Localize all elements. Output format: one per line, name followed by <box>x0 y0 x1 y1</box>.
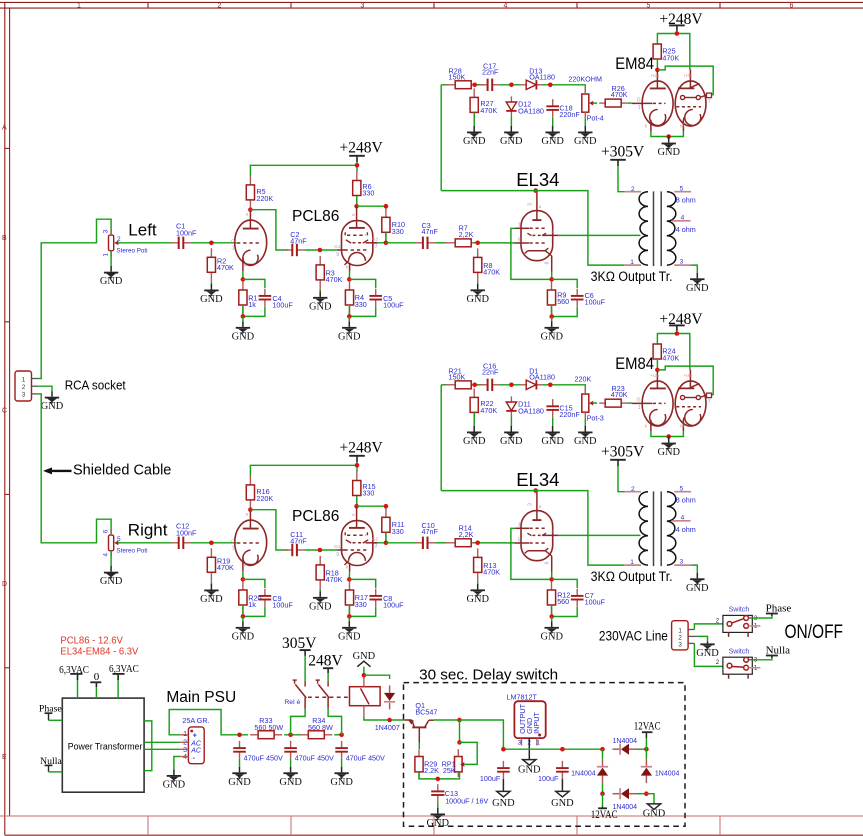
wire Q1 collector to junction <box>434 718 462 723</box>
svg-text:GND: GND <box>200 594 223 605</box>
svg-text:Stereo Poti: Stereo Poti <box>116 547 147 554</box>
svg-text:100uF: 100uF <box>383 301 404 310</box>
wire C12 to triode grid <box>191 542 237 544</box>
svg-text:470K: 470K <box>326 575 343 584</box>
resistor R13 470K (EL34 grid leak) <box>474 548 501 581</box>
svg-text:+248V: +248V <box>340 139 384 156</box>
wire pentode cathode network <box>349 579 375 588</box>
svg-text:470K: 470K <box>662 53 679 62</box>
resistor R2 470K (grid leak) <box>207 248 234 281</box>
ground GND at bridge <box>643 804 666 820</box>
svg-text:4: 4 <box>552 229 555 235</box>
wire anode to coupling cap C11 <box>250 510 288 550</box>
svg-text:1: 1 <box>77 3 81 10</box>
ground GND under R2 <box>200 282 223 306</box>
junction screen node <box>354 196 359 209</box>
diode D2 1N4004 (bridge top) <box>613 738 638 755</box>
wire pot wiper to R23 <box>593 402 598 404</box>
wire mains pin1 to switch S1 <box>694 624 723 630</box>
svg-text:470uF 450V: 470uF 450V <box>346 753 385 762</box>
svg-text:3: 3 <box>361 3 365 10</box>
svg-text:GND: GND <box>200 294 223 305</box>
junction EL34 cathode <box>549 572 554 582</box>
svg-text:6: 6 <box>790 3 794 10</box>
resistor R6 330 (screen) <box>353 172 375 205</box>
junction B+ at C19 <box>237 733 242 738</box>
capacitor C13 1000uF / 16V <box>431 784 488 805</box>
svg-text:7: 7 <box>708 99 711 105</box>
svg-text:GND: GND <box>686 583 709 594</box>
wire C17 to D13 <box>500 84 521 86</box>
junction at R3 <box>318 248 323 253</box>
potentiometer RP1 25K <box>442 749 465 777</box>
wire EM84 cathode rail <box>651 431 684 438</box>
svg-text:4: 4 <box>102 553 109 557</box>
svg-text:470uF 450V: 470uF 450V <box>244 753 283 762</box>
ground GND under C22 <box>551 779 574 809</box>
svg-text:100uF: 100uF <box>383 601 404 610</box>
wire EL34 cathode network <box>552 579 578 588</box>
ground GND under R20 <box>232 616 255 642</box>
supply +248V rail (Left) <box>250 139 383 176</box>
ground GND under R27 <box>463 112 486 147</box>
svg-text:47nF: 47nF <box>290 536 307 545</box>
capacitor C5 100uF <box>369 289 404 310</box>
svg-text:AC: AC <box>190 740 202 747</box>
capacitor C9 100uF (cathode bypass) <box>259 589 294 610</box>
junction at R13 <box>475 541 480 546</box>
wire EL34 anode to output transformer <box>559 534 641 536</box>
supply 0 center tap <box>90 671 101 698</box>
svg-text:470K: 470K <box>662 353 679 362</box>
svg-text:1: 1 <box>22 376 26 383</box>
capacitor C16 22nF <box>480 361 500 391</box>
capacitor C17 22nF <box>480 61 500 91</box>
frame row letters <box>2 125 7 762</box>
capacitor C14 100uF (output) <box>480 761 510 783</box>
svg-text:EM84: EM84 <box>615 355 654 373</box>
capacitor C8 100uF <box>369 589 404 610</box>
triode section of PCL86 (V4a) <box>231 510 267 571</box>
diode D5 1N4004 (bridge bottom) <box>613 788 638 811</box>
ground GND under R9 <box>540 317 563 343</box>
svg-text:2: 2 <box>631 486 635 493</box>
resistor R7 2,2K (grid stopper) <box>445 224 481 247</box>
wire Q1 emitter node to regulator output bus <box>460 720 504 749</box>
svg-text:100uF: 100uF <box>585 598 606 607</box>
svg-text:GND: GND <box>100 276 123 287</box>
wire output node to C3 <box>386 242 417 244</box>
junction EL34 top (screen) node <box>533 188 538 193</box>
label Shielded Cable with arrow <box>43 462 171 478</box>
svg-text:EL34-EM84 - 6.3V: EL34-EM84 - 6.3V <box>60 645 138 657</box>
capacitor C18 220nF <box>546 99 580 119</box>
svg-text:5: 5 <box>647 3 651 10</box>
svg-text:2: 2 <box>678 635 682 642</box>
magic eye tube EM84 V6 <box>632 370 712 432</box>
transformer core <box>654 491 662 566</box>
svg-text:Switch: Switch <box>729 607 750 614</box>
svg-text:+305V: +305V <box>601 444 645 461</box>
wire EL34 g3 to cathode <box>511 228 552 279</box>
svg-text:9: 9 <box>336 552 339 558</box>
svg-text:4: 4 <box>681 515 685 522</box>
svg-text:9: 9 <box>336 252 339 258</box>
svg-text:1000uF / 16V: 1000uF / 16V <box>445 796 488 805</box>
label EL34 <box>516 469 559 490</box>
svg-text:B: B <box>2 235 7 242</box>
ground GND under Pot-3 <box>574 418 597 447</box>
svg-text:GND: GND <box>228 777 251 788</box>
switch S1 (Phase) <box>716 607 761 637</box>
frame column numbers <box>77 3 794 10</box>
supply 12VAC bottom <box>591 794 618 821</box>
wire feedback to EM84 block <box>440 85 442 191</box>
resistor R3 470K <box>316 256 342 289</box>
supply 12VAC top <box>634 721 661 750</box>
label EL34 <box>516 169 559 190</box>
connector 25A GR. bridge rectifier <box>179 716 209 764</box>
svg-text:1: 1 <box>518 523 521 529</box>
wire cathode network bottom <box>241 305 265 319</box>
ground GND at RCA <box>41 392 64 413</box>
svg-text:GND: GND <box>657 147 680 158</box>
wire pot wiper to C1 <box>118 242 172 244</box>
svg-text:3: 3 <box>183 747 187 754</box>
svg-text:+Ise: +Ise <box>684 373 693 378</box>
svg-text:220K: 220K <box>575 374 592 383</box>
svg-text:8 ohm: 8 ohm <box>676 495 696 504</box>
ground GND under R4 <box>338 316 361 342</box>
svg-text:G: G <box>231 538 235 544</box>
supply +248V at EM84 <box>659 311 703 334</box>
wire EL34 screen node to feedback and primary bottom <box>441 491 624 565</box>
resistor R4 330 (pentode cathode) <box>345 281 366 314</box>
power transformer T1 box <box>62 698 144 792</box>
ground GND under R18 <box>309 589 332 612</box>
svg-text:GND: GND <box>466 294 489 305</box>
wire pentode cathode network <box>349 279 375 288</box>
resistor R15 330 (screen) <box>353 472 376 505</box>
supply Phase input terminal <box>39 703 63 720</box>
junction bridge bottom right <box>637 791 649 796</box>
relay contact K1b <box>316 680 330 708</box>
svg-text:GND: GND <box>540 331 563 342</box>
wire D13 to pot Pot-4 <box>543 85 586 94</box>
svg-text:GND: GND <box>574 436 597 447</box>
wire feedback to EM84 block <box>440 385 442 491</box>
wire RCA pin2 to ground <box>38 386 52 391</box>
relay actuation dashed link <box>308 696 350 698</box>
capacitor C2 47nF <box>285 230 308 256</box>
resistor R10 330 <box>382 208 405 241</box>
svg-text:470uF 450V: 470uF 450V <box>295 753 334 762</box>
ground GND under R19 <box>200 582 223 606</box>
svg-text:GND: GND <box>696 648 719 659</box>
svg-text:2.2K: 2.2K <box>424 766 439 775</box>
svg-text:3: 3 <box>528 203 534 206</box>
svg-text:GND: GND <box>466 594 489 605</box>
label Rel 6 <box>284 699 300 706</box>
svg-text:470K: 470K <box>483 268 500 277</box>
svg-text:220K: 220K <box>256 494 273 503</box>
wire cathode node to C4 <box>243 279 265 288</box>
svg-text:GND: GND <box>492 798 515 809</box>
triode section of PCL86 (V1a) <box>231 210 267 271</box>
svg-text:BC547: BC547 <box>415 708 437 717</box>
resistor R24 470K <box>653 344 679 362</box>
label RCA socket <box>65 378 126 392</box>
svg-text:2: 2 <box>117 236 121 243</box>
svg-text:Right: Right <box>128 521 168 540</box>
svg-text:GND: GND <box>574 136 597 147</box>
svg-text:GND: GND <box>540 631 563 642</box>
junction pentode cathode <box>347 571 352 582</box>
svg-text:G1: G1 <box>334 544 341 550</box>
capacitor C20 470uF 450V <box>284 741 334 763</box>
resistor R9 560 (EL34 cathode) <box>547 281 569 314</box>
wire left input bus (RCA pin1 up to Left pot) <box>38 219 111 378</box>
resistor R16 220K (anode load) <box>246 476 273 509</box>
ground GND above relay (flipped) <box>353 651 376 675</box>
svg-text:8: 8 <box>545 562 551 565</box>
svg-text:OA1180: OA1180 <box>518 406 544 415</box>
voltage regulator U1 LM7812T <box>507 692 546 746</box>
potentiometer POT1b (volume) <box>102 529 147 557</box>
wire C3 to R7 <box>435 242 447 244</box>
svg-text:5: 5 <box>518 238 521 244</box>
svg-text:Switch: Switch <box>729 648 750 655</box>
wire screen node to R11 <box>357 504 389 509</box>
svg-text:OA1180: OA1180 <box>529 73 555 82</box>
pentode section of PCL86 (V4b) <box>334 506 379 571</box>
svg-text:M: M <box>680 424 684 429</box>
svg-text:560: 560 <box>557 597 569 606</box>
wire EL34 anode to output transformer <box>559 234 641 236</box>
svg-text:EM84: EM84 <box>615 55 654 73</box>
output transformer TR1 3K primary <box>624 186 648 266</box>
svg-text:Power Transformer: Power Transformer <box>68 742 143 752</box>
svg-text:47nF: 47nF <box>290 236 307 245</box>
output transformer secondary <box>667 185 696 265</box>
svg-text:a: a <box>539 205 542 210</box>
svg-text:GND: GND <box>41 401 64 412</box>
svg-text:GND: GND <box>500 136 523 147</box>
svg-text:G: G <box>637 98 641 104</box>
svg-text:4: 4 <box>183 754 187 761</box>
svg-text:12VAC: 12VAC <box>634 721 661 733</box>
wire 305V to relay contact 1 <box>304 656 306 682</box>
svg-text:GND: GND <box>541 136 564 147</box>
junction pentode g2/output node <box>378 532 389 545</box>
junction triode cathode <box>241 271 246 282</box>
svg-text:E: E <box>2 754 7 761</box>
junction EL34 cathode <box>549 272 554 282</box>
svg-text:GND: GND <box>427 818 450 829</box>
svg-text:220nF: 220nF <box>559 110 580 119</box>
svg-text:220K: 220K <box>256 194 273 203</box>
svg-text:Main PSU: Main PSU <box>166 689 236 706</box>
junction bridge bottom left <box>600 783 605 796</box>
svg-text:330: 330 <box>355 300 367 309</box>
svg-text:5: 5 <box>117 536 121 543</box>
wire pot wiper to R26 <box>593 102 598 104</box>
svg-text:PCL86: PCL86 <box>292 508 339 525</box>
wire relay bottom row <box>364 717 405 723</box>
svg-text:EL34: EL34 <box>516 169 559 190</box>
capacitor C11 47nF <box>285 530 308 556</box>
svg-text:470K: 470K <box>611 90 628 99</box>
diode D12 OA1180 <box>506 96 544 116</box>
wire C11 to pentode grid <box>305 549 338 551</box>
svg-text:470K: 470K <box>480 106 497 115</box>
wire feedback into R21 <box>441 384 447 386</box>
capacitor C19 470uF 450V <box>233 741 283 763</box>
svg-text:3: 3 <box>102 229 109 233</box>
junction at C18 <box>548 83 553 88</box>
ground GND under C21 <box>330 759 353 788</box>
resistor R21 150K <box>445 366 481 389</box>
wire EL34 cathode bottom <box>549 305 577 319</box>
wire S1 to Phase <box>752 614 772 619</box>
wire R28 to C17 <box>473 84 484 86</box>
svg-text:Shielded Cable: Shielded Cable <box>73 462 171 478</box>
svg-text:470K: 470K <box>483 568 500 577</box>
capacitor C10 47nF (coupling to EL34) <box>415 521 438 549</box>
svg-text:+Ise: +Ise <box>684 73 693 78</box>
resistor R34 560 8W <box>300 716 333 739</box>
wire EL34 screen node to feedback and primary bottom <box>441 191 624 266</box>
svg-text:ON/OFF: ON/OFF <box>785 622 844 643</box>
svg-text:248V: 248V <box>308 652 343 669</box>
label Left channel <box>128 221 157 240</box>
svg-text:G2: G2 <box>372 537 379 543</box>
resistor R14 2,2K (grid stopper) <box>445 524 481 547</box>
svg-text:100nF: 100nF <box>176 528 197 537</box>
svg-text:GND: GND <box>463 136 486 147</box>
svg-text:Pot-4: Pot-4 <box>587 113 604 122</box>
svg-text:330: 330 <box>392 527 404 536</box>
ground GND under C14 <box>492 779 515 809</box>
ground GND under pot POT1a <box>100 251 123 288</box>
capacitor C1 100nF <box>171 221 197 249</box>
svg-text:1N4007: 1N4007 <box>375 723 400 732</box>
ground GND under D11 <box>500 416 523 447</box>
svg-text:470K: 470K <box>217 563 234 572</box>
wire +248V to R15 <box>355 463 360 472</box>
wire bridge right to ground <box>646 794 654 804</box>
svg-text:1: 1 <box>630 559 634 566</box>
svg-text:100uF: 100uF <box>585 298 606 307</box>
svg-text:5: 5 <box>680 185 684 192</box>
wire collector node down to RP1 <box>457 720 462 745</box>
svg-text:INPUT: INPUT <box>532 711 541 733</box>
capacitor C3 47nF (coupling to EL34) <box>415 221 438 249</box>
ground GND under pot POT1b <box>100 551 123 588</box>
svg-text:2: 2 <box>22 384 26 391</box>
wire contact1 to B+ node2 <box>291 709 306 735</box>
magic eye tube EM84 V3 <box>632 70 712 132</box>
resistor R8 470K (EL34 grid leak) <box>474 248 501 281</box>
junction at R19 <box>209 541 214 546</box>
capacitor C12 100nF <box>171 521 197 549</box>
svg-text:12VAC: 12VAC <box>591 809 618 821</box>
wire R25 node to target pin 7 <box>657 66 713 95</box>
svg-text:30 sec. Delay switch: 30 sec. Delay switch <box>419 666 558 683</box>
junction triode anode node <box>248 207 253 212</box>
svg-text:3: 3 <box>678 642 682 649</box>
svg-text:330: 330 <box>392 227 404 236</box>
junction at D11 <box>509 383 514 388</box>
svg-text:RCA socket: RCA socket <box>65 378 126 392</box>
svg-text:1: 1 <box>638 405 641 411</box>
wire +248V to R6 <box>355 163 360 172</box>
wire screen node to R10 <box>357 204 389 209</box>
label 3K Output Tr. <box>591 569 673 584</box>
svg-text:100uF: 100uF <box>272 301 293 310</box>
wire cathode node to C9 <box>243 579 265 588</box>
junction triode anode node <box>248 507 253 512</box>
supply +305V (Left) <box>601 144 645 192</box>
svg-text:0: 0 <box>94 671 100 683</box>
connector RCA socket <box>15 371 38 401</box>
svg-text:AC: AC <box>190 748 202 755</box>
ground GND at regulator pin2 <box>518 738 541 775</box>
svg-text:GND: GND <box>309 601 332 612</box>
svg-text:3: 3 <box>374 543 377 549</box>
wire S2 to Nulla <box>752 656 772 660</box>
svg-text:M: M <box>680 124 684 129</box>
wire EL34 g3 to cathode <box>511 528 552 579</box>
svg-text:560: 560 <box>557 297 569 306</box>
svg-text:OA1180: OA1180 <box>518 106 544 115</box>
supply +248V rail (Right) <box>250 439 383 476</box>
ground GND at transformer <box>686 273 709 294</box>
svg-text:220KOHM: 220KOHM <box>568 74 602 83</box>
svg-text:150K: 150K <box>449 73 466 82</box>
ground GND under C13 <box>427 802 450 829</box>
svg-text:GND: GND <box>100 576 123 587</box>
svg-text:2: 2 <box>218 3 222 10</box>
capacitor C6 100uF <box>571 289 606 307</box>
wire feedback into R28 <box>441 84 447 86</box>
svg-text:1: 1 <box>630 259 634 266</box>
svg-text:D: D <box>2 581 7 588</box>
svg-text:100uF: 100uF <box>538 774 559 783</box>
wire EL34 cathode bottom <box>549 605 577 619</box>
ground GND under C20 <box>279 759 302 788</box>
svg-text:3: 3 <box>22 392 26 399</box>
svg-text:4 ohm: 4 ohm <box>676 225 696 234</box>
power pentode EL34 V5 <box>515 491 559 572</box>
svg-text:a: a <box>352 213 355 218</box>
svg-text:GND: GND <box>232 331 255 342</box>
svg-text:1N4004: 1N4004 <box>571 771 596 778</box>
resistor R22 470K <box>470 388 497 421</box>
svg-text:LM7812T: LM7812T <box>507 692 538 701</box>
label 30 sec. Delay switch <box>419 666 558 683</box>
wire coil top to 1N4007 cathode... anode <box>364 675 390 679</box>
svg-text:GND: GND <box>463 436 486 447</box>
svg-text:+Ua: +Ua <box>651 73 660 78</box>
diode D14 1N4007 (flyback) <box>375 685 400 731</box>
resistor R1 1k (cathode) <box>239 281 258 314</box>
svg-text:8: 8 <box>545 262 551 265</box>
svg-text:Pot-3: Pot-3 <box>587 413 604 422</box>
svg-text:a: a <box>539 505 542 510</box>
svg-text:470K: 470K <box>217 263 234 272</box>
svg-text:470K: 470K <box>480 406 497 415</box>
